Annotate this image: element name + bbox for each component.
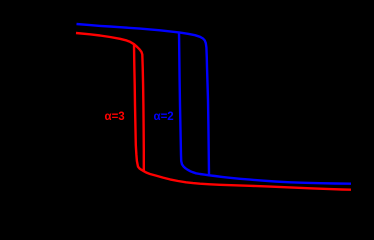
red curve alpha=3 upper branch and right drop <box>76 33 144 171</box>
svg-text:α=2: α=2 <box>154 111 174 123</box>
svg-text:α=3: α=3 <box>105 111 125 123</box>
blue curve alpha=2 upper branch and right drop <box>77 24 210 175</box>
red curve alpha=3 left jump line, lower bend and flat tail <box>134 45 351 190</box>
blue curve alpha=2 left jump line, lower bend and flat tail <box>179 32 351 184</box>
